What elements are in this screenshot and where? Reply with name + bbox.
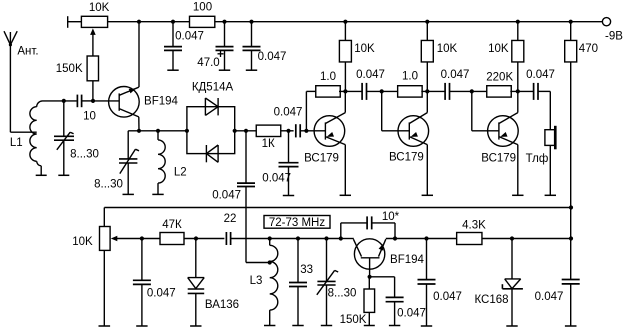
- svg-text:22: 22: [224, 213, 237, 225]
- svg-text:ВА136: ВА136: [205, 299, 239, 311]
- svg-text:220K: 220K: [486, 71, 513, 83]
- svg-text:0.047: 0.047: [147, 288, 176, 300]
- svg-text:0.047: 0.047: [262, 173, 291, 185]
- svg-text:-9В: -9В: [605, 30, 623, 42]
- svg-text:10K: 10K: [89, 2, 110, 14]
- svg-text:0.047: 0.047: [535, 291, 564, 303]
- svg-text:L3: L3: [250, 275, 263, 287]
- svg-text:8...30: 8...30: [94, 179, 123, 191]
- svg-text:4.3K: 4.3K: [462, 220, 486, 232]
- svg-text:10K: 10K: [488, 43, 509, 55]
- svg-text:1К: 1К: [262, 138, 275, 150]
- svg-text:10*: 10*: [382, 211, 400, 223]
- svg-text:8...30: 8...30: [70, 148, 99, 160]
- svg-text:BF194: BF194: [390, 254, 424, 266]
- svg-text:0.047: 0.047: [397, 308, 426, 320]
- svg-text:BF194: BF194: [144, 95, 178, 107]
- svg-text:ВС179: ВС179: [389, 152, 424, 164]
- svg-text:0.047: 0.047: [433, 291, 462, 303]
- svg-text:10K: 10K: [72, 236, 93, 248]
- svg-text:33: 33: [300, 264, 313, 276]
- svg-text:47К: 47К: [162, 219, 182, 231]
- svg-text:0.047: 0.047: [441, 69, 470, 81]
- svg-text:L1: L1: [10, 137, 23, 149]
- svg-text:0.047: 0.047: [258, 51, 287, 63]
- svg-text:0.047: 0.047: [212, 189, 241, 201]
- svg-text:10: 10: [83, 110, 96, 122]
- svg-text:8...30: 8...30: [328, 288, 357, 300]
- svg-text:КС168: КС168: [474, 294, 508, 306]
- svg-text:L2: L2: [174, 166, 187, 178]
- svg-text:0.047: 0.047: [526, 69, 555, 81]
- svg-text:10K: 10K: [437, 43, 458, 55]
- svg-text:КД514А: КД514А: [192, 82, 234, 94]
- svg-text:150K: 150K: [340, 314, 367, 326]
- svg-text:0.047: 0.047: [356, 69, 385, 81]
- svg-text:ВС179: ВС179: [304, 153, 339, 165]
- svg-text:470: 470: [579, 43, 598, 55]
- svg-text:0.047: 0.047: [175, 31, 204, 43]
- svg-text:1.0: 1.0: [402, 71, 418, 83]
- svg-text:0.047: 0.047: [274, 107, 303, 119]
- svg-text:+: +: [217, 47, 224, 61]
- svg-text:Ант.: Ант.: [17, 46, 38, 58]
- svg-text:72-73 MHz: 72-73 MHz: [269, 217, 325, 229]
- svg-text:Тлф: Тлф: [526, 153, 549, 165]
- svg-text:150K: 150K: [56, 63, 83, 75]
- svg-text:1.0: 1.0: [320, 71, 336, 83]
- svg-text:100: 100: [193, 2, 212, 14]
- svg-text:10K: 10K: [354, 43, 375, 55]
- svg-text:ВС179: ВС179: [481, 152, 516, 164]
